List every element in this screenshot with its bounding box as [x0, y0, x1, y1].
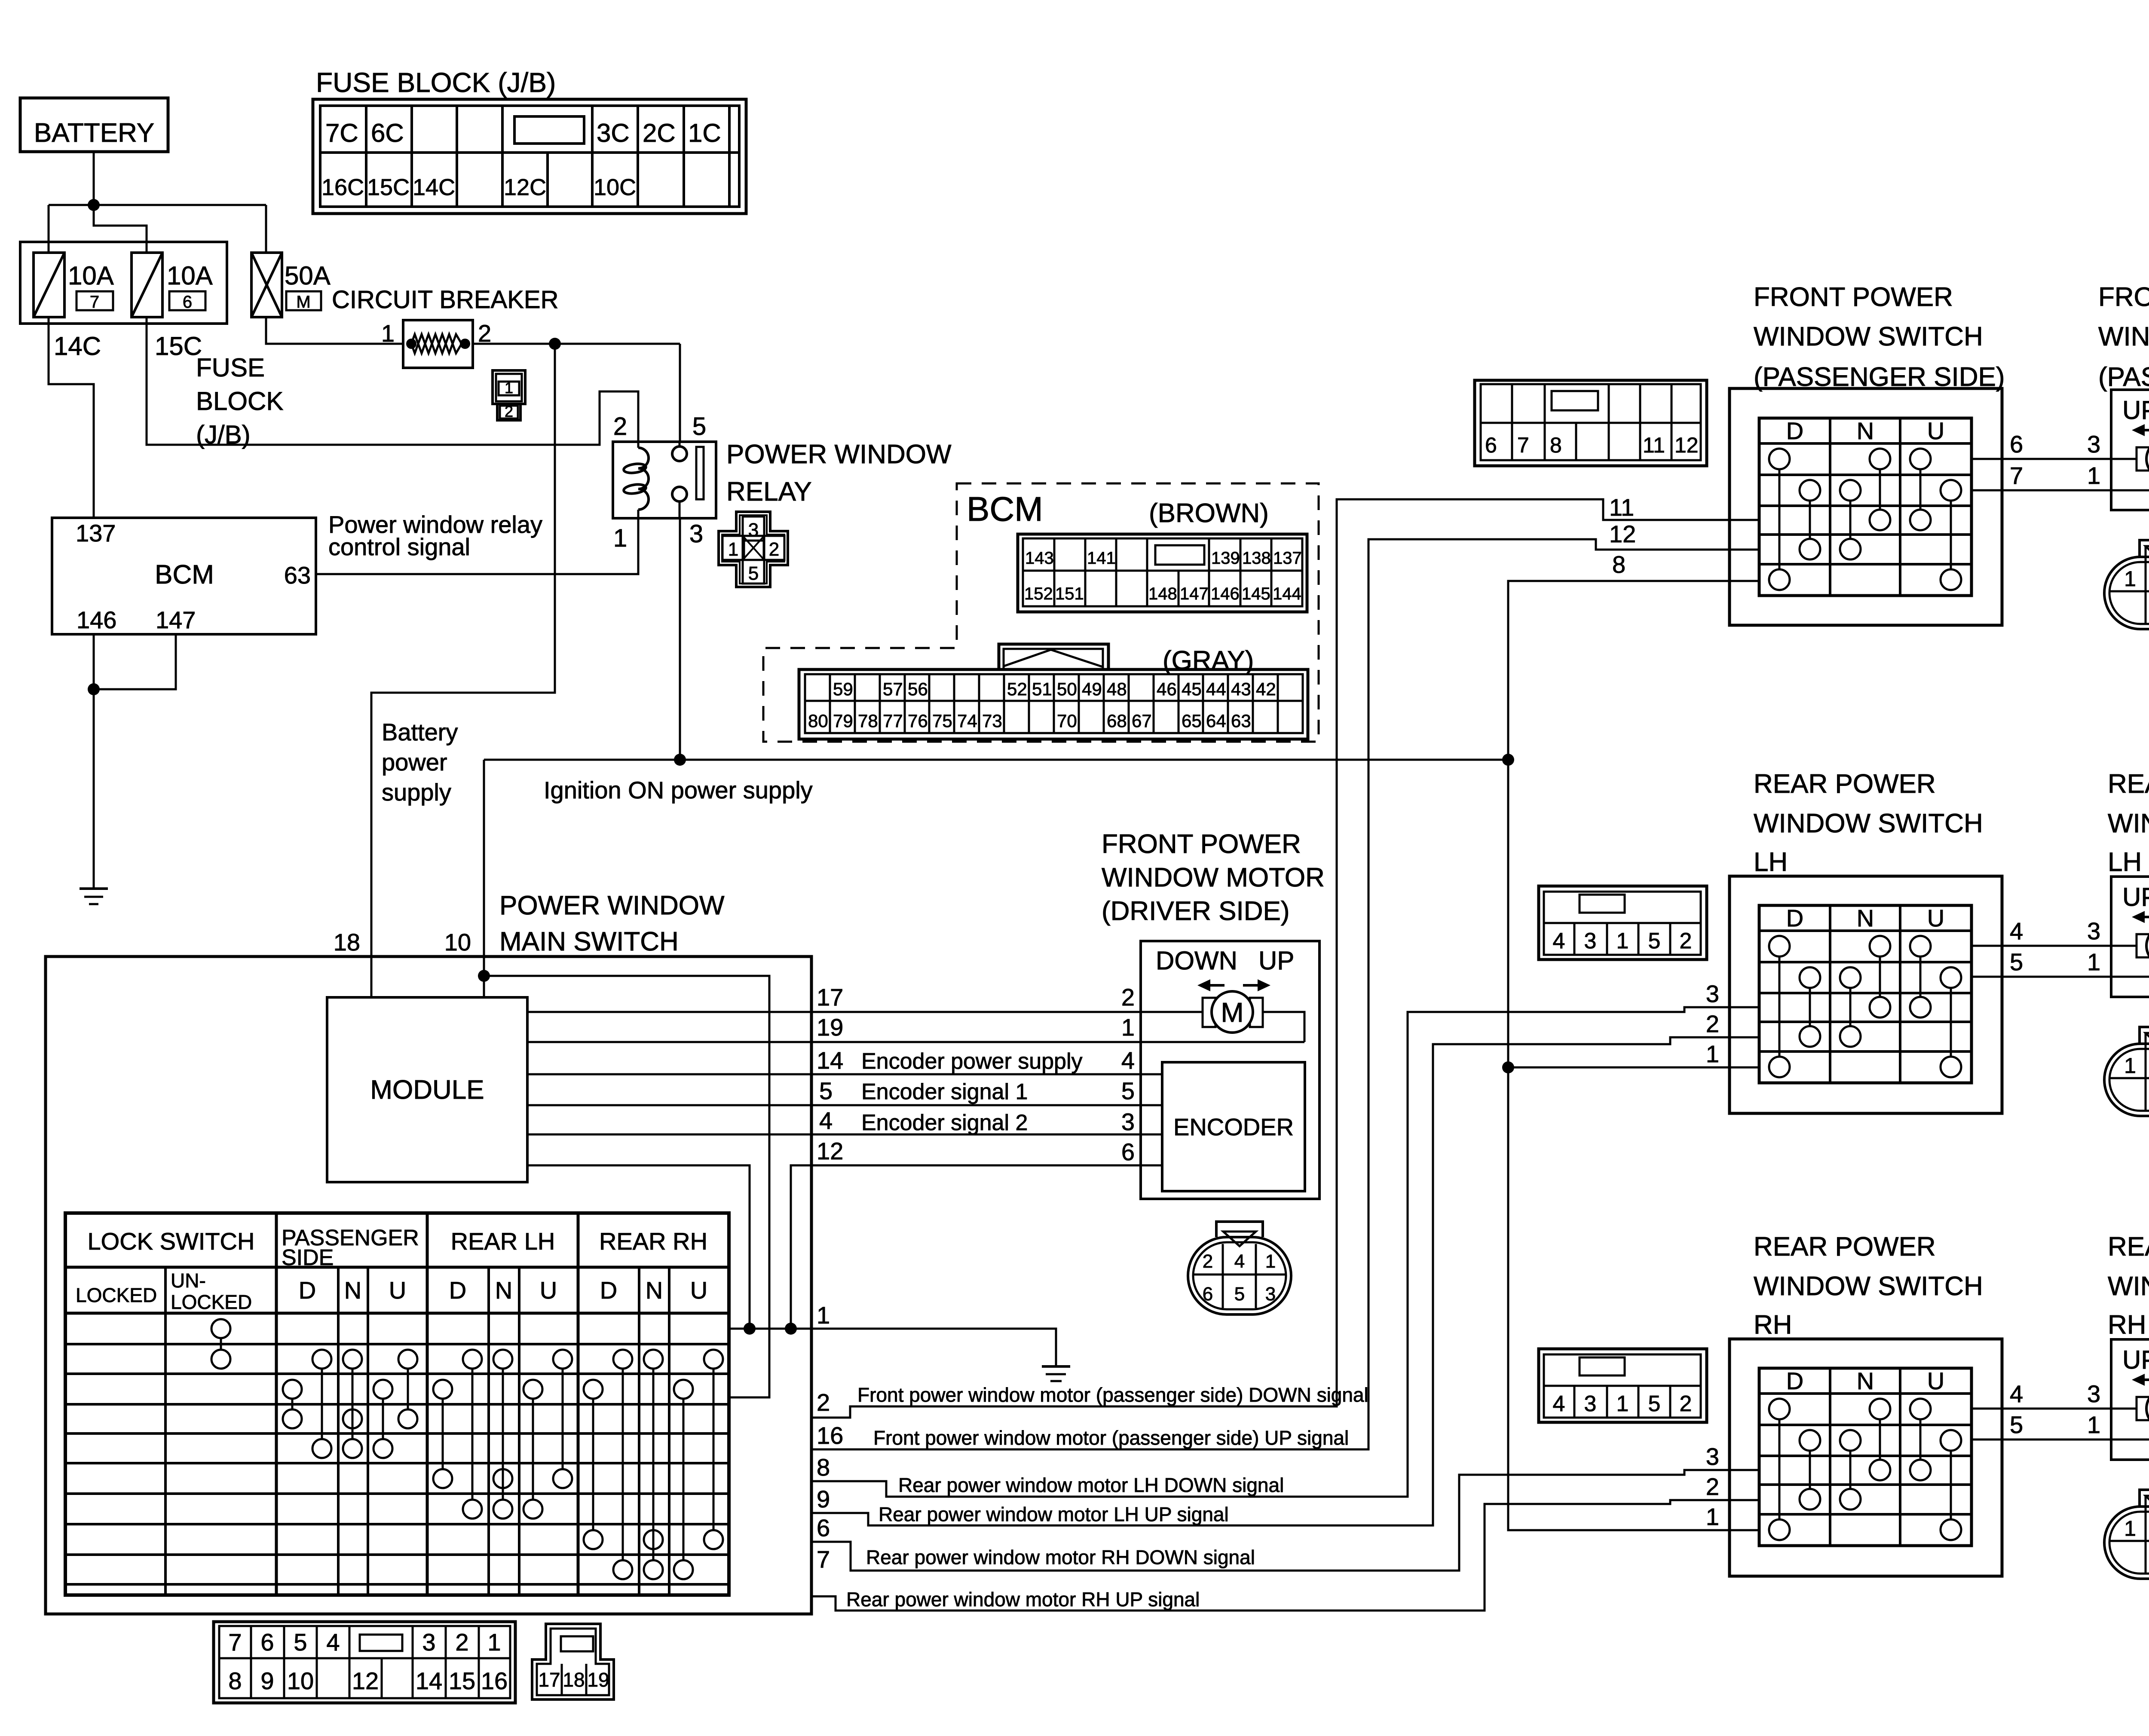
svg-text:2: 2	[1680, 1391, 1692, 1416]
connector 5-pin 4 3 1 5 2	[1539, 1349, 1707, 1422]
svg-text:FRONT POWER: FRONT POWER	[2098, 282, 2149, 312]
switch table header rows	[65, 1266, 729, 1269]
svg-text:147: 147	[1180, 584, 1209, 603]
svg-text:REAR LH: REAR LH	[451, 1228, 555, 1255]
svg-text:U: U	[389, 1277, 406, 1304]
connector 5-pin 4 3 1 5 2	[1539, 886, 1707, 960]
fuse block J/B connector box	[313, 99, 746, 214]
svg-text:4: 4	[326, 1629, 340, 1656]
fuse F1 10A (7)	[34, 253, 64, 317]
svg-text:16: 16	[817, 1422, 843, 1449]
svg-text:power: power	[382, 749, 447, 776]
svg-text:N: N	[1857, 905, 1874, 932]
svg-text:3: 3	[1265, 1284, 1276, 1305]
contacts rear LH D	[463, 1350, 482, 1369]
svg-text:REAR POWER: REAR POWER	[2108, 1232, 2149, 1262]
svg-text:144: 144	[1273, 584, 1301, 603]
svg-text:4: 4	[1121, 1047, 1135, 1074]
svg-text:5: 5	[294, 1629, 307, 1656]
svg-text:BLOCK: BLOCK	[196, 387, 283, 416]
svg-text:9: 9	[817, 1485, 830, 1513]
svg-text:UP: UP	[2122, 883, 2149, 911]
wire module pin 5 encoder signal 1	[527, 1104, 1162, 1106]
wire main switch pin 1 ground run	[729, 1329, 1056, 1366]
motor box	[2111, 390, 2149, 510]
contacts U column	[1910, 1399, 1931, 1419]
node breaker output junction	[549, 338, 561, 350]
contacts N column	[1840, 967, 1861, 988]
svg-text:FUSE BLOCK (J/B): FUSE BLOCK (J/B)	[316, 67, 556, 98]
svg-text:78: 78	[858, 711, 878, 731]
wire motor loop driver	[1263, 1012, 1304, 1042]
svg-text:1: 1	[1706, 1503, 1719, 1530]
svg-text:52: 52	[1007, 679, 1027, 699]
switch D/N/U table	[1759, 905, 1971, 1083]
oval connector tab	[2140, 1027, 2149, 1044]
ground symbol main switch	[1042, 1365, 1070, 1368]
svg-text:49: 49	[1082, 679, 1102, 699]
wire module pin 17 to motor	[527, 1011, 1203, 1013]
svg-text:D: D	[449, 1277, 466, 1304]
svg-text:70: 70	[1057, 711, 1077, 731]
wire ignition ON power supply run	[484, 759, 1508, 761]
svg-text:(PASSENGER SIDE): (PASSENGER SIDE)	[2098, 362, 2149, 392]
svg-text:Encoder signal 1: Encoder signal 1	[861, 1079, 1028, 1104]
ENCODER box	[1162, 1062, 1305, 1191]
wire relay pin 3 down to ignition run	[679, 518, 681, 760]
switch table column lines	[164, 1267, 167, 1595]
svg-text:9: 9	[260, 1667, 274, 1694]
contacts rear RH N	[644, 1350, 663, 1369]
wire pin 10 branch to lock-row feed	[484, 976, 769, 1397]
wire pin 9 rear LH UP signal	[811, 1037, 1759, 1525]
oval connector grid	[2145, 1033, 2147, 1111]
svg-text:FRONT POWER: FRONT POWER	[1754, 282, 1953, 312]
svg-text:2: 2	[1706, 1010, 1719, 1037]
svg-text:ENCODER: ENCODER	[1173, 1113, 1294, 1140]
connector key slot	[1580, 895, 1625, 913]
connector 12-pin front switch	[1475, 380, 1707, 466]
wire bus to fuse 50A	[265, 205, 267, 253]
BCM connector GRAY	[799, 669, 1308, 739]
svg-text:2: 2	[1121, 984, 1135, 1011]
svg-text:MODULE: MODULE	[370, 1075, 484, 1105]
wire rear LH pin 1	[1508, 1067, 1759, 1069]
svg-text:3: 3	[2087, 1380, 2100, 1407]
svg-text:18: 18	[563, 1669, 585, 1691]
oval connector grid	[1222, 1244, 1224, 1308]
svg-text:1: 1	[2124, 567, 2136, 591]
connector 3-pin 17 18 19	[532, 1624, 614, 1699]
svg-text:N: N	[495, 1277, 512, 1304]
wire front switch pin 7 to motor	[1971, 489, 2149, 492]
node pin 10 branch	[478, 970, 490, 982]
svg-text:Battery: Battery	[382, 718, 458, 746]
svg-text:UN-: UN-	[171, 1269, 206, 1292]
wire bus to fuse 15C	[94, 205, 147, 253]
wire rear RH switch pin 4 to motor	[1971, 1408, 2137, 1410]
contacts rear RH D	[613, 1350, 632, 1369]
svg-text:74: 74	[957, 711, 977, 731]
rear LH switch box	[1730, 876, 2002, 1113]
wire relay pin 1 to BCM 63	[316, 518, 638, 574]
svg-text:RELAY: RELAY	[726, 477, 812, 507]
wire rear RH switch pin 5 to motor	[1971, 1439, 2149, 1441]
motor M	[2137, 447, 2149, 471]
svg-text:67: 67	[1132, 711, 1152, 731]
svg-text:MAIN SWITCH: MAIN SWITCH	[499, 927, 679, 957]
svg-text:1: 1	[2124, 1054, 2136, 1078]
oval connector 1/3	[2104, 1044, 2149, 1116]
oval connector 1/3	[2104, 1507, 2149, 1579]
svg-text:D: D	[600, 1277, 617, 1304]
svg-text:4: 4	[2010, 1380, 2023, 1407]
fuse block lower box	[20, 242, 227, 324]
cross connector relay 3/1/2/5	[719, 512, 788, 587]
svg-text:LH: LH	[2108, 847, 2142, 877]
svg-text:BCM: BCM	[967, 490, 1043, 528]
svg-text:Ignition ON power supply: Ignition ON power supply	[544, 776, 813, 804]
svg-text:73: 73	[982, 711, 1002, 731]
svg-text:14C: 14C	[54, 332, 101, 361]
fuse block grid columns bottom row	[365, 153, 367, 207]
connector 3-pin key slot	[561, 1636, 593, 1651]
svg-text:1: 1	[1616, 929, 1629, 954]
svg-text:148: 148	[1148, 584, 1177, 603]
GRAY connector top bump	[999, 644, 1108, 669]
oval connector grid	[2145, 546, 2147, 624]
svg-text:LOCKED: LOCKED	[76, 1284, 157, 1306]
wire module pin 14 encoder power	[527, 1073, 1162, 1076]
svg-text:1: 1	[728, 539, 738, 560]
svg-text:57: 57	[883, 679, 903, 699]
motor box	[2111, 877, 2149, 997]
svg-text:8: 8	[228, 1667, 242, 1694]
svg-text:18: 18	[334, 929, 360, 956]
svg-text:50: 50	[1057, 679, 1077, 699]
svg-text:16C: 16C	[321, 174, 364, 200]
svg-text:139: 139	[1211, 549, 1240, 568]
svg-text:2: 2	[769, 539, 779, 560]
svg-text:5: 5	[1648, 929, 1661, 954]
svg-text:M: M	[1221, 997, 1243, 1028]
svg-text:8: 8	[1612, 551, 1626, 578]
cross connector cells	[743, 517, 764, 541]
svg-text:UP: UP	[1258, 946, 1294, 975]
svg-text:12: 12	[1675, 433, 1699, 457]
relay contact pin 5	[672, 446, 687, 461]
svg-text:45: 45	[1182, 679, 1202, 699]
svg-text:2: 2	[817, 1389, 830, 1416]
BCM connector BROWN	[1018, 534, 1307, 612]
svg-text:D: D	[1786, 417, 1803, 444]
svg-text:15C: 15C	[155, 332, 202, 361]
circuit breaker zigzag element	[411, 334, 462, 353]
oval connector tab	[2140, 1490, 2149, 1507]
svg-text:76: 76	[908, 711, 928, 731]
svg-text:5: 5	[1121, 1077, 1135, 1104]
contacts D column	[1769, 1399, 1790, 1419]
svg-text:19: 19	[587, 1669, 609, 1691]
wire breaker to relay feed	[473, 343, 680, 345]
svg-text:63: 63	[1231, 711, 1251, 731]
svg-text:3: 3	[1706, 1443, 1719, 1470]
svg-text:WINDOW MOTOR: WINDOW MOTOR	[2108, 1271, 2149, 1301]
contacts N column	[1840, 1430, 1861, 1451]
svg-text:4: 4	[1553, 1391, 1565, 1416]
svg-text:3C: 3C	[597, 119, 630, 147]
svg-text:2: 2	[1680, 929, 1692, 954]
svg-text:BCM: BCM	[155, 560, 214, 590]
wire 15C to relay coil pin 2	[147, 317, 638, 445]
svg-text:2: 2	[505, 403, 513, 420]
contacts D column	[1769, 449, 1790, 469]
svg-text:12: 12	[817, 1137, 843, 1164]
svg-text:REAR POWER: REAR POWER	[2108, 769, 2149, 799]
switch table row lines	[65, 1343, 729, 1345]
arrow left UP	[2141, 1378, 2149, 1381]
fuse block grid row divider	[320, 151, 739, 154]
svg-text:141: 141	[1087, 549, 1116, 568]
svg-text:5: 5	[1234, 1284, 1245, 1305]
svg-text:D: D	[299, 1277, 316, 1304]
node circuit breaker pin 2	[460, 339, 470, 349]
svg-text:UP: UP	[2122, 396, 2149, 425]
motor box driver side	[1141, 941, 1319, 1199]
wire pin 7 rear RH UP signal	[811, 1500, 1759, 1611]
svg-text:6: 6	[1203, 1284, 1213, 1305]
svg-text:7: 7	[2010, 462, 2023, 489]
wire 50A fuse to circuit breaker	[266, 317, 403, 344]
svg-text:1: 1	[2087, 462, 2100, 489]
fuse F3 50A circuit breaker fuse	[251, 253, 282, 317]
wire pin 8 rear LH DOWN signal	[811, 1007, 1759, 1497]
svg-text:POWER WINDOW: POWER WINDOW	[499, 891, 725, 920]
motor M	[2137, 1397, 2149, 1420]
relay contact pin 3	[672, 487, 687, 501]
svg-text:3: 3	[1584, 929, 1597, 954]
svg-text:UP: UP	[2122, 1345, 2149, 1374]
wire pin 16 front passenger UP signal	[811, 539, 1759, 1449]
svg-text:6: 6	[1121, 1138, 1135, 1165]
fuse F2 10A (6)	[132, 253, 162, 317]
svg-text:1: 1	[2087, 948, 2100, 975]
wire pin 6 rear RH DOWN signal	[811, 1470, 1759, 1571]
svg-text:12: 12	[1609, 520, 1636, 547]
svg-text:WINDOW MOTOR: WINDOW MOTOR	[2098, 322, 2149, 351]
svg-text:7: 7	[228, 1629, 242, 1656]
svg-text:3: 3	[1706, 980, 1719, 1007]
connector plug 1/2 below breaker	[493, 370, 525, 404]
svg-text:Rear power window motor RH UP: Rear power window motor RH UP signal	[846, 1588, 1200, 1611]
svg-text:7: 7	[90, 293, 99, 312]
contacts rear LH U	[553, 1350, 572, 1369]
svg-text:65: 65	[1182, 711, 1202, 731]
svg-text:3: 3	[1584, 1391, 1597, 1416]
svg-text:U: U	[1927, 1367, 1944, 1394]
switch D/N/U table	[1759, 1368, 1971, 1546]
oval connector tab	[1216, 1222, 1263, 1237]
svg-text:12C: 12C	[504, 174, 546, 200]
svg-text:146: 146	[1211, 584, 1240, 603]
svg-text:U: U	[540, 1277, 557, 1304]
svg-text:14: 14	[817, 1047, 843, 1074]
svg-text:10A: 10A	[68, 261, 114, 290]
svg-text:WINDOW SWITCH: WINDOW SWITCH	[1754, 1271, 1983, 1301]
svg-text:4: 4	[819, 1107, 833, 1134]
contact lock switch unlocked	[211, 1319, 230, 1338]
svg-text:15: 15	[449, 1667, 475, 1694]
wire ignition-ground bus front switch pin 8	[1508, 581, 1759, 1530]
svg-text:2: 2	[1706, 1473, 1719, 1500]
contacts rear RH U	[704, 1350, 723, 1369]
connector 16-pin below main switch	[214, 1622, 515, 1703]
svg-text:59: 59	[833, 679, 853, 699]
oval connector driver motor 6-pin	[1188, 1237, 1291, 1314]
svg-text:19: 19	[817, 1014, 843, 1041]
wire battery to bus	[93, 152, 95, 205]
svg-text:SIDE: SIDE	[282, 1245, 334, 1270]
svg-text:REAR POWER: REAR POWER	[1754, 1232, 1936, 1262]
rear RH switch box	[1730, 1339, 2002, 1576]
node ground bus tee 2	[785, 1323, 797, 1335]
node ground bus tee 1	[744, 1323, 756, 1335]
svg-text:7: 7	[817, 1546, 830, 1573]
svg-text:14C: 14C	[413, 174, 455, 200]
wire ignition to main switch pin 10	[483, 760, 485, 997]
svg-text:U: U	[1927, 905, 1944, 932]
svg-text:CIRCUIT BREAKER: CIRCUIT BREAKER	[332, 286, 558, 314]
relay K1 POWER WINDOW RELAY box	[613, 442, 716, 518]
svg-text:6: 6	[2010, 431, 2023, 458]
svg-text:10: 10	[287, 1667, 314, 1694]
contacts N column	[1840, 480, 1861, 501]
svg-text:50A: 50A	[285, 261, 331, 290]
oval connector 1/3	[2104, 557, 2149, 629]
contacts U column	[1910, 449, 1931, 469]
wire BCM 147 to ground junction	[94, 634, 176, 689]
arrow left UP	[2141, 429, 2149, 431]
wire front switch pin 6 to motor	[1971, 458, 2137, 460]
svg-text:FRONT POWER: FRONT POWER	[1102, 829, 1301, 859]
svg-text:(BROWN): (BROWN)	[1149, 498, 1269, 528]
svg-text:LOCKED: LOCKED	[171, 1291, 252, 1313]
svg-text:N: N	[344, 1277, 361, 1304]
svg-text:138: 138	[1242, 549, 1271, 568]
svg-text:2: 2	[455, 1629, 468, 1656]
svg-text:43: 43	[1231, 679, 1251, 699]
contacts D column	[1769, 936, 1790, 957]
wire module pin 4 encoder signal 2	[527, 1134, 1162, 1136]
svg-text:6: 6	[1485, 433, 1497, 457]
svg-text:N: N	[1857, 417, 1874, 444]
svg-text:3: 3	[422, 1629, 435, 1656]
contacts passenger side U	[398, 1350, 417, 1369]
svg-text:Encoder power supply: Encoder power supply	[861, 1049, 1083, 1074]
svg-text:77: 77	[883, 711, 903, 731]
wire 14C to BCM 137	[49, 317, 94, 518]
svg-text:80: 80	[808, 711, 828, 731]
svg-text:1C: 1C	[688, 119, 721, 147]
svg-text:11: 11	[1609, 494, 1634, 521]
svg-text:12: 12	[352, 1667, 379, 1694]
svg-text:6C: 6C	[371, 119, 404, 147]
BROWN connector key slot	[1155, 545, 1204, 565]
svg-text:2: 2	[613, 413, 627, 440]
connector 12-pin key slot	[1552, 391, 1598, 410]
svg-text:2C: 2C	[643, 119, 676, 147]
svg-text:3: 3	[2087, 431, 2100, 458]
fuse block grid columns top row	[365, 106, 367, 153]
svg-text:68: 68	[1107, 711, 1127, 731]
svg-text:51: 51	[1032, 679, 1052, 699]
power window main switch box	[46, 957, 811, 1614]
svg-text:1: 1	[1706, 1040, 1719, 1067]
svg-text:N: N	[1857, 1367, 1874, 1394]
svg-text:1: 1	[2087, 1411, 2100, 1438]
svg-text:6: 6	[183, 293, 192, 312]
svg-text:REAR POWER: REAR POWER	[1754, 769, 1936, 799]
contacts passenger side D	[312, 1350, 331, 1369]
svg-text:7: 7	[1517, 433, 1529, 457]
svg-text:4: 4	[1234, 1251, 1245, 1272]
svg-text:3: 3	[1121, 1108, 1135, 1135]
svg-text:17: 17	[817, 984, 843, 1011]
svg-text:3: 3	[748, 520, 759, 541]
svg-text:6: 6	[817, 1514, 830, 1541]
svg-text:RH: RH	[2108, 1310, 2146, 1340]
svg-text:1: 1	[381, 320, 395, 347]
svg-text:1: 1	[613, 524, 627, 552]
arrow up-right	[1243, 984, 1261, 987]
svg-text:LOCK SWITCH: LOCK SWITCH	[88, 1228, 255, 1255]
svg-text:145: 145	[1242, 584, 1270, 603]
svg-text:LH: LH	[1754, 847, 1788, 877]
node battery bus junction	[88, 199, 100, 211]
svg-text:REAR RH: REAR RH	[599, 1228, 707, 1255]
svg-text:1: 1	[505, 379, 513, 397]
svg-text:3: 3	[689, 520, 703, 548]
switch D/N/U table	[1759, 418, 1971, 596]
svg-text:8: 8	[817, 1454, 830, 1481]
battery BATTERY	[20, 98, 168, 152]
svg-text:42: 42	[1256, 679, 1276, 699]
BCM box	[52, 518, 316, 634]
svg-text:WINDOW MOTOR: WINDOW MOTOR	[2108, 809, 2149, 838]
pin box 7	[77, 291, 113, 310]
svg-text:WINDOW MOTOR: WINDOW MOTOR	[1102, 863, 1325, 892]
svg-text:Front power window motor (pass: Front power window motor (passenger side…	[873, 1427, 1349, 1449]
svg-text:5: 5	[692, 413, 706, 440]
svg-text:5: 5	[1648, 1391, 1661, 1416]
contacts U column	[1910, 936, 1931, 957]
svg-text:POWER WINDOW: POWER WINDOW	[726, 440, 952, 469]
svg-text:1: 1	[817, 1302, 830, 1329]
wire BCM 146 to ground	[93, 634, 95, 889]
svg-text:2: 2	[1203, 1251, 1213, 1272]
svg-text:11: 11	[1643, 433, 1665, 457]
svg-text:RH: RH	[1754, 1310, 1792, 1340]
svg-text:147: 147	[156, 606, 196, 633]
svg-text:44: 44	[1206, 679, 1226, 699]
svg-text:75: 75	[932, 711, 952, 731]
svg-text:5: 5	[819, 1077, 833, 1104]
node bus at ignition run	[1502, 754, 1514, 766]
svg-text:1: 1	[1121, 1014, 1135, 1041]
svg-text:17: 17	[538, 1669, 560, 1691]
wire rear LH switch pin 5 to motor	[1971, 976, 2149, 978]
wire breaker junction down to battery-supply run	[371, 344, 555, 997]
